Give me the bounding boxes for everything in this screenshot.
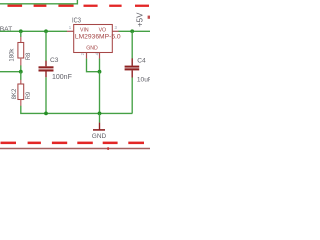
resistor R9 <box>20 72 22 80</box>
svg-text:GND: GND <box>92 133 107 140</box>
svg-text:VO: VO <box>99 28 107 34</box>
wire gnd column <box>99 72 101 114</box>
svg-text:180k: 180k <box>10 48 16 62</box>
wire R9 bottom corner <box>21 106 133 114</box>
svg-text:R9: R9 <box>26 91 32 99</box>
resistor R8 <box>20 31 22 37</box>
voltage regulator IC3 LM2936MP-5.0 <box>74 25 113 53</box>
capacitor C3 <box>45 31 47 61</box>
svg-text:8K2: 8K2 <box>12 88 18 99</box>
svg-text:C4: C4 <box>137 57 146 64</box>
svg-text:10uF: 10uF <box>137 77 150 84</box>
wire +VBAT net horizontal <box>0 30 67 32</box>
svg-text:100nF: 100nF <box>52 74 72 81</box>
svg-text:C3: C3 <box>50 57 59 64</box>
pin 1 VIN stub <box>67 30 74 32</box>
junction IC gnd pins <box>98 70 102 74</box>
wire IC gnd jog <box>87 59 100 72</box>
junction C3 top <box>44 29 48 33</box>
pin 4 GND tab stub <box>99 53 101 59</box>
junction R8 top <box>19 29 23 33</box>
wire R8 bottom to mid node <box>20 65 22 71</box>
svg-text:GND: GND <box>86 45 98 51</box>
frame border line <box>0 148 150 150</box>
pin 2 GND stub <box>86 53 88 59</box>
svg-text:R8: R8 <box>26 52 32 60</box>
wire mid net to left edge <box>0 71 21 73</box>
wire VO net to right edge <box>118 30 150 32</box>
wire IC pin4 down <box>99 59 101 72</box>
top dashed red boundary line <box>8 5 150 7</box>
junction GND column at bottom net <box>98 112 102 116</box>
junction C3 bottom <box>44 112 48 116</box>
wire top-left net going off top edge <box>0 0 77 4</box>
pin 3 VO stub <box>112 30 118 32</box>
capacitor C4 <box>131 31 133 58</box>
fragment of neighbouring symbol at right edge <box>148 16 150 19</box>
ground symbol <box>99 113 101 122</box>
svg-text:LM2936MP-5.0: LM2936MP-5.0 <box>75 34 121 41</box>
svg-text:+5V: +5V <box>135 12 144 27</box>
frame tick <box>107 147 109 150</box>
bottom dashed red boundary line <box>1 142 145 145</box>
junction C4 top <box>130 29 134 33</box>
junction divider mid node <box>19 70 23 74</box>
svg-text:VIN: VIN <box>80 28 89 34</box>
svg-text:IC3: IC3 <box>72 16 81 25</box>
